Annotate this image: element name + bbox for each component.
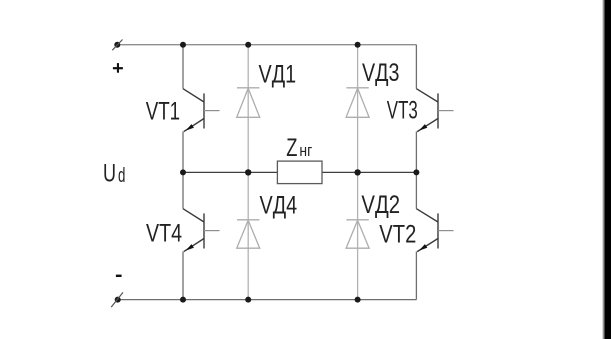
wire VT2 emitter to bottom rail — [415, 251, 417, 299]
diode VD2 — [346, 220, 369, 248]
wire middle load rail right — [322, 171, 416, 173]
node dot bottom VD4 — [245, 297, 251, 303]
svg-text:VT2: VT2 — [379, 221, 416, 249]
svg-text:VД3: VД3 — [362, 59, 399, 87]
svg-text:VД4: VД4 — [260, 192, 298, 220]
svg-text:VT1: VT1 — [146, 98, 180, 126]
terminal slash top — [112, 40, 122, 51]
wire top DC rail — [117, 44, 416, 46]
wire VT4 collector — [182, 172, 184, 208]
svg-text:нг: нг — [299, 141, 312, 160]
node dot top VT1 — [180, 42, 186, 48]
wire VT4 emitter to bottom rail — [182, 251, 184, 299]
wire diode leg VD3 (top, x=357.6) — [357, 45, 359, 173]
node dot bottom terminal — [115, 297, 121, 303]
svg-text:d: d — [118, 165, 125, 187]
plus sign — [113, 63, 123, 73]
node dot top terminal — [114, 42, 120, 48]
node dot top VD1 — [245, 42, 251, 48]
wire VT2 collector — [415, 172, 417, 208]
diode VD4 — [237, 220, 260, 248]
minus sign — [116, 275, 122, 277]
diode VD3 — [346, 88, 369, 118]
wire VT3 collector — [415, 45, 417, 89]
svg-text:VД2: VД2 — [361, 191, 400, 219]
transistor VT2 — [416, 209, 453, 252]
wire VT3 emitter to mid rail — [415, 131, 417, 172]
node dot bottom VD2 — [355, 297, 361, 303]
svg-text:U: U — [103, 160, 116, 188]
wire diode leg VD2 (bottom, x=357.6) — [357, 172, 359, 299]
load box Znг — [277, 161, 322, 184]
wire diode leg VD1 (top, x=248) — [247, 45, 249, 173]
svg-text:VД1: VД1 — [259, 60, 297, 88]
diode VD1 — [237, 88, 260, 118]
wire VT1 emitter to mid rail — [182, 131, 184, 172]
transistor VT3 — [416, 89, 453, 132]
node dot top VD3 — [355, 42, 361, 48]
svg-text:Z: Z — [286, 134, 297, 162]
transistor VT4 — [183, 209, 220, 252]
node dot mid right leg — [413, 169, 419, 175]
node dot mid VD3 — [354, 169, 360, 175]
wire VT1 collector — [182, 45, 184, 89]
transistor VT1 — [183, 89, 220, 132]
wire middle load rail left — [183, 171, 277, 173]
node dot mid VT1 — [180, 169, 186, 175]
wire diode leg VD4 (bottom, x=248) — [247, 172, 249, 299]
node dot bottom VT4 — [180, 297, 186, 303]
right black screen edge bar — [602, 0, 606, 339]
svg-text:VT4: VT4 — [146, 219, 182, 247]
wire bottom DC rail — [118, 299, 417, 301]
terminal slash bottom — [111, 292, 123, 307]
svg-text:VT3: VT3 — [387, 96, 418, 124]
node dot mid VD1 — [245, 169, 251, 175]
